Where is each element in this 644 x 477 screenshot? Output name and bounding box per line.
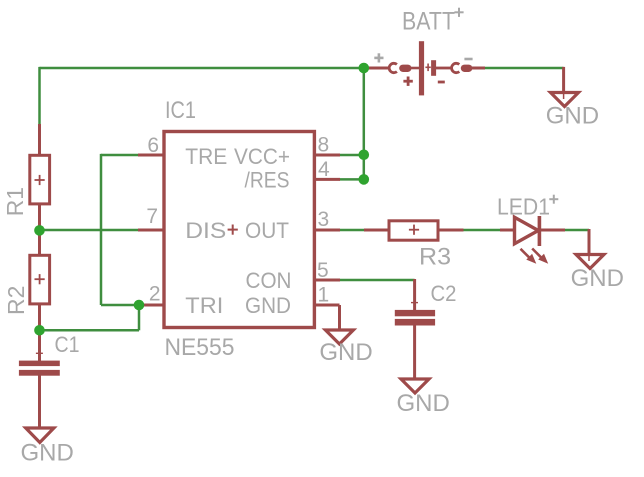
svg-text:R3: R3 [419, 244, 451, 271]
capacitor C1 pin top [38, 329, 41, 361]
svg-text:7: 7 [146, 205, 158, 228]
svg-text:BATT: BATT [402, 8, 455, 36]
junction dot pin2 [134, 300, 145, 311]
junction dot R2/C1 [34, 325, 45, 336]
battery pin blob right [461, 65, 473, 72]
svg-text:NE555: NE555 [165, 334, 235, 361]
svg-text:C2: C2 [431, 281, 457, 306]
junction dot R1/R2/pin7 [34, 225, 45, 236]
svg-text:C1: C1 [55, 332, 80, 357]
battery pin circle right [452, 63, 460, 72]
wire top horizontal VCC net [40, 67, 364, 70]
pin 1 vertical to gnd [338, 305, 341, 331]
battery plate short (-) [431, 60, 436, 76]
junction dot pin4 [359, 174, 370, 185]
resistor R1 pins [38, 124, 41, 156]
battery BATT wire stub left [364, 67, 389, 70]
BATT origin cross [454, 8, 463, 17]
wire left vertical to R1 [38, 67, 41, 125]
LED1 light arrow 1 [521, 249, 530, 258]
ground triangle LED [576, 255, 604, 269]
svg-text:GND: GND [245, 293, 291, 318]
battery plate long (+) [419, 41, 424, 95]
pin 5 stub [313, 279, 340, 282]
resistor R3 cross [409, 225, 419, 235]
svg-text:GND: GND [21, 440, 74, 467]
svg-text:/RES: /RES [245, 168, 290, 193]
battery minus gray [464, 58, 472, 61]
wire pin8 to vertical [339, 154, 364, 157]
capacitor C2 plates [395, 310, 435, 316]
wire pin7 to R1/R2 junction [40, 229, 139, 232]
svg-text:R2: R2 [3, 286, 29, 315]
resistor R3 pins [364, 229, 390, 232]
battery small cross [425, 64, 430, 72]
junction dot battery/top wire [359, 63, 370, 74]
wire vertical battery to pin4 [363, 68, 366, 179]
pin 3 stub [313, 229, 340, 232]
LED1 cathode pin [540, 229, 565, 232]
wire vertical pin6-pin2 net [100, 154, 103, 305]
wire R2/C1 junction to riser [40, 329, 140, 332]
svg-text:2: 2 [149, 282, 161, 305]
svg-text:5: 5 [317, 259, 329, 282]
wire pin6 horizontal [101, 154, 139, 157]
svg-text:CON: CON [246, 268, 292, 293]
LED1 light arrow 2 [532, 249, 541, 258]
LED1 triangle [515, 217, 539, 243]
svg-text:8: 8 [318, 134, 330, 157]
capacitor C1 pin bottom to gnd [38, 376, 41, 430]
pin 1 stub [313, 304, 340, 307]
wire junction down to C1 net [138, 305, 141, 330]
capacitor C2 pin top [413, 279, 416, 311]
svg-text:1: 1 [318, 284, 330, 307]
pin 6 stub [138, 154, 165, 157]
svg-text:TRE: TRE [185, 144, 227, 169]
svg-text:VCC+: VCC+ [234, 144, 290, 169]
wire battery right to gnd corner [484, 67, 564, 70]
battery plus gray [374, 53, 383, 62]
resistor R2 pins [38, 229, 41, 256]
svg-text:GND: GND [546, 103, 599, 130]
capacitor C2 origin cross [411, 299, 418, 306]
svg-text:LED1: LED1 [497, 193, 550, 219]
battery plus red [403, 77, 412, 86]
ground triangle pin1 [325, 330, 353, 344]
svg-text:4: 4 [318, 158, 330, 181]
battery minus red [438, 81, 445, 84]
capacitor C1 origin cross [36, 350, 43, 357]
wire pin4 to vertical [339, 178, 364, 181]
battery link right [436, 67, 452, 70]
wire pin5 to C2 [339, 279, 415, 282]
svg-text:IC1: IC1 [165, 97, 196, 124]
svg-text:GND: GND [571, 265, 624, 292]
ground triangle C2 [401, 379, 429, 393]
resistor R1 body [30, 155, 50, 204]
wire LED to gnd corner [564, 229, 589, 232]
pin 8 stub [313, 154, 340, 157]
battery stub right [472, 67, 485, 70]
svg-text:GND: GND [319, 339, 372, 366]
IC1 origin cross [228, 225, 238, 235]
ground stub LED [588, 229, 591, 255]
LED1 origin cross [549, 195, 558, 204]
svg-text:GND: GND [397, 390, 450, 417]
capacitor C1 plates [19, 361, 60, 367]
pin 2 stub [139, 304, 165, 307]
LED1 cathode bar [538, 216, 542, 246]
resistor R1 cross [35, 175, 45, 185]
wire R3 to LED [463, 229, 501, 232]
wire horizontal into pin2 junction [101, 304, 139, 307]
battery link to plate [411, 67, 419, 70]
junction dot pin8 [359, 150, 370, 161]
ground triangle top right [551, 93, 579, 107]
battery pin circle left [389, 63, 397, 72]
svg-text:6: 6 [147, 134, 159, 157]
resistor R3 body [389, 221, 438, 240]
resistor R2 cross [35, 274, 45, 284]
ground stub top right [562, 67, 565, 93]
svg-text:3: 3 [318, 208, 330, 231]
op-amp/timer IC1 box [164, 132, 314, 328]
svg-text:OUT: OUT [245, 218, 289, 243]
pin 7 stub [138, 229, 165, 232]
pin 4 stub [313, 178, 340, 181]
svg-text:DIS: DIS [185, 218, 226, 243]
ground under C1 [26, 428, 54, 443]
wire pin3 to R3 [340, 229, 366, 232]
capacitor C2 pin bottom [413, 325, 416, 380]
LED1 anode pin [500, 229, 514, 232]
svg-text:R1: R1 [2, 187, 28, 216]
resistor R2 body [30, 255, 50, 304]
battery pin blob left [399, 65, 411, 72]
svg-text:TRI: TRI [185, 293, 223, 318]
